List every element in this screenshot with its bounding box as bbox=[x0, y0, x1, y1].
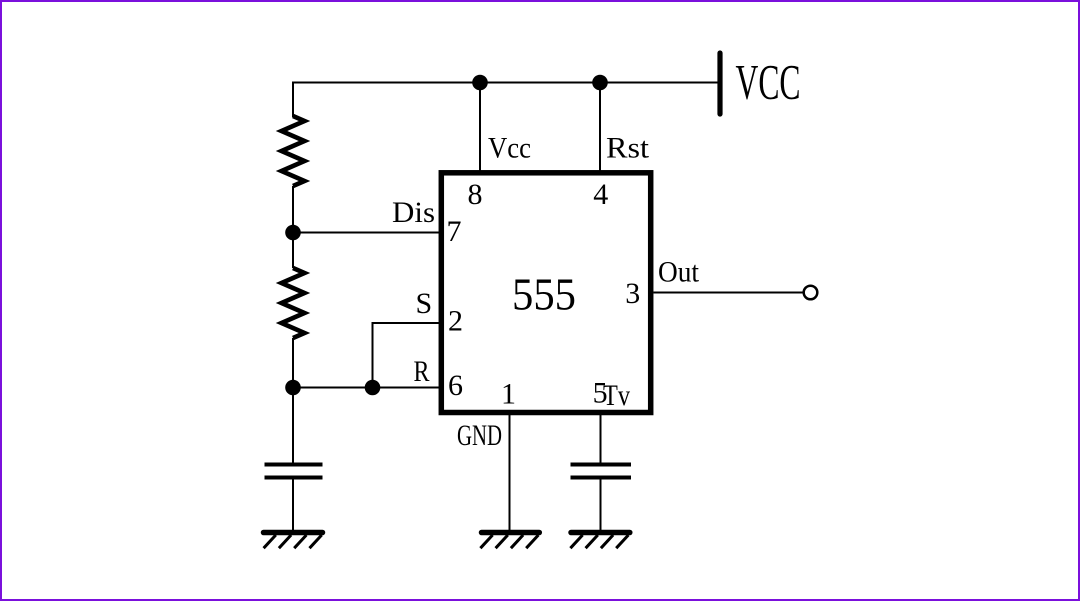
svg-text:S: S bbox=[416, 287, 433, 320]
wire: pin 8 Vcc vertical bbox=[479, 83, 481, 172]
svg-text:Tv: Tv bbox=[603, 379, 630, 412]
svg-text:7: 7 bbox=[447, 215, 462, 248]
wire: pin 3 Out horizontal bbox=[654, 292, 803, 294]
svg-text:Out: Out bbox=[658, 256, 700, 289]
wire: pin 1 GND vertical bbox=[509, 414, 511, 531]
node: open output terminal bbox=[804, 286, 818, 300]
wire: R2 down to capacitor C1 bbox=[292, 338, 294, 463]
wire: pin 5 vertical to C2 bbox=[600, 414, 602, 463]
node: junction dot R-net left bbox=[285, 380, 301, 396]
wire: R horizontal bbox=[293, 387, 440, 389]
ground G1 (left) bbox=[264, 533, 323, 549]
svg-text:Rst: Rst bbox=[606, 132, 650, 165]
svg-text:R: R bbox=[414, 355, 430, 388]
wire: top rail from left branch to VCC bar bbox=[293, 82, 718, 84]
node: junction dot Dis bbox=[285, 225, 301, 241]
svg-text:555: 555 bbox=[512, 270, 576, 320]
svg-text:2: 2 bbox=[448, 305, 463, 338]
power VCC bar bbox=[717, 53, 722, 114]
node: junction dot top rail / pin4 bbox=[592, 75, 608, 91]
wire: C2 to ground bbox=[600, 478, 602, 532]
wire: left branch top segment bbox=[292, 82, 294, 118]
wire: Dis horizontal bbox=[293, 232, 440, 234]
node: junction dot top rail / pin8 bbox=[472, 75, 488, 91]
svg-text:8: 8 bbox=[468, 178, 483, 211]
svg-text:VCC: VCC bbox=[736, 54, 801, 110]
wire: pin 4 Rst vertical bbox=[599, 83, 601, 172]
ground G3 (right, C2) bbox=[570, 533, 629, 549]
svg-text:GND: GND bbox=[457, 419, 502, 452]
svg-text:Dis: Dis bbox=[392, 196, 435, 229]
capacitor C2 plates bbox=[571, 463, 632, 467]
resistor R1 bbox=[282, 116, 305, 186]
svg-text:3: 3 bbox=[625, 277, 640, 310]
svg-text:Vcc: Vcc bbox=[488, 132, 531, 165]
wire: C1 to ground bbox=[292, 478, 294, 532]
svg-text:6: 6 bbox=[448, 369, 463, 402]
op-amp U1: 555 timer IC body bbox=[441, 173, 650, 413]
svg-text:4: 4 bbox=[593, 178, 608, 211]
wire: between R1 and R2 bbox=[292, 186, 294, 268]
capacitor C1 plates bbox=[265, 463, 323, 467]
ground G2 (middle, pin 1) bbox=[480, 533, 539, 549]
wire: S branch (vertical + horizontal) bbox=[373, 323, 441, 388]
node: junction dot S/R bbox=[365, 380, 381, 396]
svg-text:1: 1 bbox=[501, 378, 516, 411]
resistor R2 bbox=[282, 268, 305, 338]
